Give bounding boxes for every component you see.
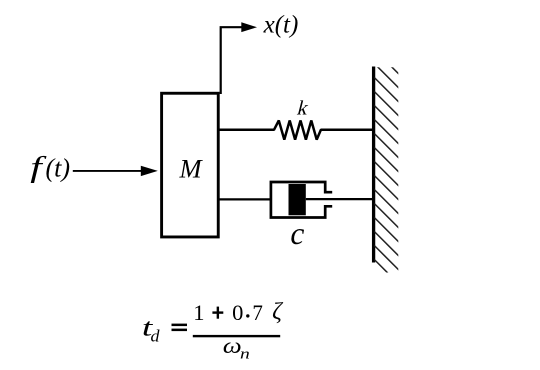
svg-text:1: 1 <box>193 300 204 325</box>
svg-text:M: M <box>179 154 204 184</box>
svg-text:(t): (t) <box>46 154 71 183</box>
svg-text:d: d <box>151 327 161 346</box>
svg-text:c: c <box>290 216 304 251</box>
svg-text:7: 7 <box>252 300 263 325</box>
svg-text:0: 0 <box>232 300 243 325</box>
svg-text:x(t): x(t) <box>263 12 299 39</box>
svg-text:ω: ω <box>223 334 242 358</box>
svg-text:n: n <box>240 346 250 362</box>
